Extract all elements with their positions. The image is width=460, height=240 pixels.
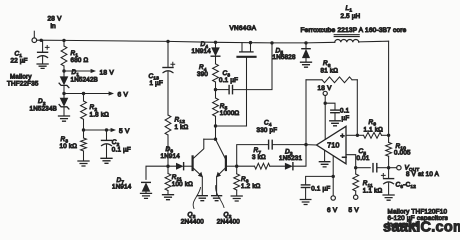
diode D4 1N914 [211, 47, 220, 56]
zener diode D2 1N5234B [60, 98, 69, 107]
mosfet VN64GA VMOS symbol [242, 43, 251, 52]
wire: output node to op-amp output apex [306, 144, 317, 146]
transistor Q2 collector diagonal [216, 139, 226, 159]
node: 6V tap [62, 92, 65, 95]
terminal: 28V input [32, 38, 37, 43]
node: output junction [387, 166, 390, 169]
node: collector bus junction [214, 138, 217, 141]
svg-text:3 kΩ: 3 kΩ [252, 154, 266, 161]
svg-text:1.8 kΩ: 1.8 kΩ [90, 112, 110, 119]
svg-text:100 kΩ: 100 kΩ [172, 181, 193, 188]
wire: 6V node to D2 [63, 94, 65, 98]
svg-text:2.5 µH: 2.5 µH [341, 13, 361, 20]
ground below D7 [141, 193, 152, 198]
wire: C3 to drain bus riser [233, 43, 272, 90]
terminal: Vout [397, 166, 401, 170]
wire: R4 to C3 node [215, 82, 217, 90]
ground below 6V cap [300, 200, 311, 205]
wire: D4 to R4 [215, 56, 217, 63]
wire: D6 to Q3 base [184, 165, 191, 167]
wire: to C5 [356, 167, 371, 169]
wire: junction to R7 [237, 165, 255, 167]
junction: C2 on 5V line [105, 128, 108, 131]
wire: D1 to 6V node [63, 86, 65, 94]
wire: C3 branch [216, 89, 229, 91]
svg-text:1N5231: 1N5231 [279, 155, 302, 162]
wire: +28V top bus from input terminal to L1 and output bus corner [37, 40, 335, 43]
wire: D3 to op-amp output node [294, 145, 306, 167]
junction on bus at drain riser [270, 41, 273, 44]
ground below Q2 emitter [212, 196, 222, 201]
svg-text:1N5828: 1N5828 [273, 54, 296, 61]
resistor R8 81k horizontal with risers [306, 79, 322, 81]
svg-text:–: – [342, 152, 347, 161]
resistor R7 3k horizontal [255, 163, 270, 169]
wire: D2 to ground [63, 107, 65, 115]
node: 18V tap [62, 69, 65, 72]
svg-text:18 V: 18 V [318, 85, 333, 92]
svg-text:390: 390 [197, 71, 208, 78]
op-amp ground pin [324, 150, 326, 161]
wire: bus to R1 [63, 40, 65, 46]
wire: 6V line to R2 [83, 94, 85, 102]
wire: R7 to D3 [270, 165, 285, 167]
wire: C4 branch up from base junction [237, 145, 268, 167]
wire: op-amp - input down to feedback node [346, 155, 356, 168]
resistor R10 0.005 shunt [388, 135, 390, 142]
transistor Q3 collector [193, 139, 204, 159]
ground below R11 [163, 195, 174, 200]
svg-text:1N5242B: 1N5242B [71, 77, 99, 84]
wire: right output bus down [388, 41, 390, 135]
svg-text:1N5234B: 1N5234B [30, 106, 58, 113]
wire: node to D1 [63, 71, 65, 76]
svg-text:1N914: 1N914 [192, 48, 212, 55]
op-amp V- 6V pin [332, 156, 334, 196]
svg-text:0.005: 0.005 [394, 149, 411, 156]
svg-text:28 V: 28 V [48, 16, 63, 23]
wire: to decoupling cap [325, 103, 335, 110]
node: op-amp output node [304, 143, 307, 146]
wire: R5 junction down to collector bus [215, 126, 217, 139]
node: - input junction [354, 166, 357, 169]
wire: 6V tap to 0.1uF cap [306, 176, 334, 184]
wire: R3 to ground [83, 151, 85, 161]
svg-text:81 kΩ: 81 kΩ [321, 68, 339, 75]
svg-text:22 µF: 22 µF [11, 58, 28, 65]
svg-text:0.1 µF: 0.1 µF [219, 77, 238, 84]
svg-text:18 V: 18 V [100, 69, 115, 76]
svg-text:8 V at 10 A: 8 V at 10 A [406, 171, 440, 178]
wire: C4 to output node [273, 144, 306, 146]
svg-text:2N4400: 2N4400 [181, 219, 204, 226]
svg-text:VN64GA: VN64GA [230, 25, 257, 32]
zener diode D1 1N5242B [60, 76, 69, 85]
svg-text:THF22F35: THF22F35 [7, 81, 39, 88]
node: 5V tap [82, 128, 85, 131]
wire: R1 to 18V node [63, 66, 65, 71]
resistor R1 680ohm [61, 46, 67, 66]
wire: C13 to R12 [167, 72, 169, 115]
wire: R5 bottom to gate line [216, 125, 247, 127]
op-amp U1 710 comparator triangle [317, 126, 347, 164]
wire: 18V arrow line [64, 70, 91, 72]
transistor Q2 emitter with arrow [217, 168, 226, 196]
ground below R3 [78, 161, 89, 166]
ground below C6-C12 [383, 195, 394, 200]
wire: bus to C13 [167, 41, 169, 67]
svg-text:0.1 µF: 0.1 µF [311, 185, 330, 192]
capacitor 0.1uF at 18V [331, 109, 339, 111]
wire: 5V node to R3 [83, 130, 85, 138]
svg-text:710: 710 [327, 143, 339, 150]
resistor R6 1.2k [236, 166, 238, 174]
resistor R11 100k below base node [167, 166, 169, 173]
wire: Q2 base to R7 junction [226, 165, 236, 167]
capacitor C1 22uF electrolytic [38, 51, 48, 53]
inductor L1 2.5uH with core lines [335, 40, 359, 43]
svg-text:0.1: 0.1 [340, 107, 350, 114]
capacitor C13 1uF [163, 67, 173, 69]
resistor R9 1.1k horizontal [357, 134, 363, 136]
ground below C2 [101, 158, 112, 163]
svg-text:1.1 kΩ: 1.1 kΩ [363, 188, 383, 195]
capacitor C4 330pF [268, 140, 270, 149]
ground below R6 [231, 196, 242, 201]
svg-text:5 V: 5 V [349, 207, 360, 214]
svg-text:Ferroxcube 2213P A 160-3B7 cor: Ferroxcube 2213P A 160-3B7 core [301, 27, 407, 34]
svg-text:1000Ω: 1000Ω [220, 110, 240, 117]
ground below D2 [59, 116, 70, 121]
junction on bus at C13 [166, 40, 169, 43]
wire: 18V down to op-amp V+ [324, 96, 326, 140]
wire: R2 to 5V node [83, 119, 85, 130]
wire: 5V line [84, 129, 112, 131]
diode D7 1N914 to ground [142, 182, 151, 191]
transistor Q3 emitter with arrow [193, 168, 202, 196]
wire: bus to D5 [305, 43, 307, 47]
diode D5 1N5828 [302, 49, 310, 58]
svg-text:5 V: 5 V [119, 128, 130, 135]
node: Q2 base / C4 / R6 junction [235, 165, 238, 168]
ground below 18V cap [330, 121, 341, 126]
junction on bus at D4 [214, 41, 217, 44]
svg-text:330 pF: 330 pF [257, 127, 278, 134]
svg-text:2N4400: 2N4400 [217, 219, 240, 226]
junction: R2 on 6V line [82, 92, 85, 95]
capacitor 0.1uF at 6V [301, 184, 309, 186]
svg-text:6 V: 6 V [327, 207, 338, 214]
wire: collector bus [204, 138, 216, 140]
capacitor C3 0.1uF [228, 86, 230, 94]
transistor Q2 2N4400 base bar [225, 156, 227, 170]
resistor R3 10k [81, 138, 87, 151]
svg-text:Mallory: Mallory [10, 74, 32, 81]
diode D6 1N914 [176, 163, 184, 170]
svg-text:1.2 kΩ: 1.2 kΩ [241, 183, 261, 190]
wire: to output terminal [389, 167, 397, 169]
resistor R2 1.8k [81, 101, 87, 119]
svg-text:+: + [340, 131, 345, 140]
wire: R12 to base node [167, 135, 169, 166]
svg-text:1 kΩ: 1 kΩ [175, 124, 189, 131]
node: C3 tap [214, 88, 217, 91]
node: 6V decoupling tap [332, 175, 335, 178]
svg-text:680 Ω: 680 Ω [71, 57, 89, 64]
junction on bus at R1 [62, 39, 65, 42]
ground below C1 [37, 64, 48, 68]
junction on bus at C1 [40, 39, 43, 42]
svg-text:10 kΩ: 10 kΩ [60, 143, 78, 150]
arrow 5V [111, 128, 116, 132]
wire: bus to C1 [42, 40, 44, 52]
ground below D5 [301, 62, 312, 67]
svg-text:1.1 kΩ: 1.1 kΩ [364, 127, 384, 134]
resistor R11b 1.1k to 5V [355, 168, 357, 174]
arrow 18V [91, 69, 96, 73]
svg-text:1N914: 1N914 [161, 153, 181, 160]
arrow 6V [109, 91, 114, 95]
wire: D7 corner to base wire [146, 166, 176, 179]
junction on bus at D5 [304, 41, 307, 44]
capacitor C2 0.1uF [102, 139, 112, 141]
capacitor C5 0.01 [372, 164, 374, 172]
wire: 6V line [64, 93, 109, 95]
svg-text:0.1 µF: 0.1 µF [112, 146, 131, 153]
svg-text:0.01: 0.01 [357, 155, 370, 162]
terminal: 5V at R11b [354, 195, 358, 199]
node: + input junction [356, 134, 359, 137]
node: R5 bottom junction [214, 124, 217, 127]
terminal: 6V supply [331, 196, 335, 200]
node: base wire junction R11/R12 [166, 165, 169, 168]
junction on bus at mosfet drain [249, 41, 252, 44]
diode D3 1N5231 [285, 163, 293, 170]
resistor R5 1000ohm [215, 90, 217, 98]
terminal: 18V supply [323, 91, 327, 95]
wire: mosfet gate lead down crossing C3 line [246, 58, 248, 126]
node: 18V decoupling tap [324, 102, 327, 105]
wire: op-amp + input to R9 node [346, 134, 357, 136]
resistor R4 390 [213, 64, 219, 82]
svg-text:saakIC.com: saakIC.com [383, 220, 460, 236]
svg-text:1 µF: 1 µF [150, 80, 164, 87]
svg-text:in: in [51, 23, 57, 30]
node: R9 right junction [387, 134, 390, 137]
capacitor bank C6-C12 [388, 168, 390, 179]
wire: bus to D4 [215, 42, 217, 47]
svg-text:1N914: 1N914 [112, 184, 132, 191]
ground below Q3 emitter [197, 196, 207, 201]
svg-text:µF: µF [342, 115, 350, 122]
svg-text:6 V: 6 V [118, 91, 129, 98]
transistor Q3 2N4400 base bar [192, 156, 194, 170]
resistor R12 1k [165, 115, 171, 135]
wire: 5V line to C2 [106, 130, 108, 140]
wire: C5 to output junction [377, 167, 388, 169]
